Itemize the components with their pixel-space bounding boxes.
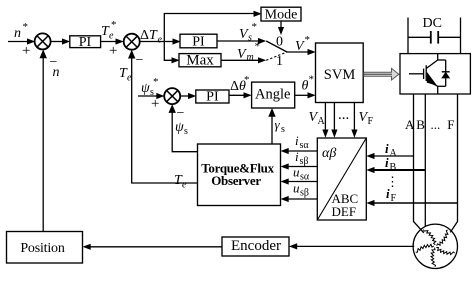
svg-text:Δ: Δ <box>140 28 149 43</box>
svg-text:B: B <box>416 117 425 132</box>
svg-text:sβ: sβ <box>300 188 309 199</box>
svg-text:*: * <box>153 76 159 88</box>
wire S2 to PI2 <box>140 38 181 44</box>
wire PI2 to contact 0 <box>217 38 266 44</box>
svg-text:γ: γ <box>275 117 281 132</box>
svg-text:+: + <box>109 43 117 59</box>
summing junction S2 <box>124 34 140 50</box>
svg-text:sα: sα <box>300 172 310 183</box>
wire i_sbeta <box>281 163 318 169</box>
wire motor to encoder <box>289 243 414 249</box>
wire PI3 to Angle <box>229 92 252 98</box>
diode freewheel <box>438 60 451 86</box>
svg-text:...: ... <box>431 117 441 132</box>
svg-text:...: ... <box>338 107 349 123</box>
wire SVM output VF <box>351 103 357 138</box>
block inverter box <box>400 54 470 94</box>
svg-text:*: * <box>252 21 258 33</box>
svg-text:*: * <box>111 19 117 31</box>
block Mode <box>261 7 301 22</box>
transistor IGBT <box>409 54 438 94</box>
wire Mode to switch <box>278 21 284 35</box>
summing junction S1 <box>35 33 51 49</box>
svg-text:Max: Max <box>186 53 214 69</box>
svg-text:A: A <box>318 116 326 127</box>
wire Angle to SVM <box>295 92 316 98</box>
svg-text:+: + <box>151 96 159 112</box>
wire i_B tap <box>366 167 425 173</box>
wire psi_s* input <box>138 93 165 99</box>
wire phase line B <box>424 94 426 227</box>
wire SVM output VA <box>322 103 328 138</box>
wire DC rail left <box>407 18 409 54</box>
svg-text:A: A <box>390 148 398 159</box>
wire S3 to PI3 <box>180 93 196 99</box>
svg-text:s: s <box>281 124 285 135</box>
wire V* to SVM <box>287 49 316 55</box>
wire Te feedback <box>128 50 198 183</box>
wire phase line F <box>450 94 457 232</box>
svg-text:Δ: Δ <box>230 79 239 94</box>
svg-text:Angle: Angle <box>255 87 290 103</box>
svg-text:F: F <box>391 193 397 204</box>
motor M1 <box>413 224 457 268</box>
svg-text:Observer: Observer <box>211 173 261 188</box>
wire psi_s feedback <box>169 104 198 152</box>
svg-text:sβ: sβ <box>300 156 309 167</box>
wire PI1 to S2 <box>101 38 124 44</box>
svg-text:−: − <box>136 53 144 68</box>
svg-text:PI: PI <box>192 34 205 49</box>
wire i_F tap <box>366 200 457 206</box>
wire gamma_s observer to Angle <box>268 108 275 144</box>
svg-text:e: e <box>158 35 163 46</box>
svg-text:A: A <box>405 117 415 132</box>
block SVM <box>316 43 364 103</box>
wire SVM output middle <box>331 103 337 138</box>
svg-text:V: V <box>237 47 247 62</box>
svg-text:n: n <box>53 65 60 80</box>
switch blade solid <box>266 41 287 52</box>
svg-text:+: + <box>22 43 30 59</box>
svg-text:V: V <box>295 39 305 54</box>
svg-text:s: s <box>184 126 188 137</box>
wire phase line A <box>414 94 424 233</box>
svg-text:F: F <box>368 116 374 127</box>
wire i_salpha <box>281 148 318 154</box>
summing junction S3 <box>164 88 180 104</box>
wire branch to Mode <box>164 11 261 42</box>
svg-text:DC: DC <box>423 16 442 31</box>
block PI1 <box>70 35 101 50</box>
wire n* input <box>8 38 35 44</box>
switch blade dashed <box>266 52 287 60</box>
svg-text:i: i <box>385 155 389 170</box>
svg-text:i: i <box>386 186 390 201</box>
svg-text:i: i <box>295 149 299 164</box>
capacitor DC link <box>408 31 461 44</box>
wire u_sbeta <box>281 196 318 202</box>
svg-text:ψ: ψ <box>175 120 184 135</box>
block transform alpha-beta <box>317 138 366 220</box>
svg-text:n: n <box>14 26 21 41</box>
svg-text:e: e <box>182 180 187 191</box>
svg-text:−: − <box>177 106 185 121</box>
svg-text:u: u <box>293 165 300 180</box>
svg-text:Encoder: Encoder <box>231 238 281 254</box>
wire u_salpha <box>281 178 318 184</box>
svg-text:*: * <box>244 74 250 86</box>
wire n feedback <box>40 49 47 231</box>
svg-text:*: * <box>255 41 261 53</box>
svg-text:ψ: ψ <box>141 81 150 96</box>
svg-text:F: F <box>447 117 454 132</box>
block Position <box>7 232 83 264</box>
wire gray arrow SVM to inverter <box>364 68 399 80</box>
svg-text:*: * <box>309 74 315 86</box>
svg-text:*: * <box>305 34 311 46</box>
block PI2 <box>180 34 217 49</box>
svg-text:PI: PI <box>79 35 92 50</box>
svg-text:SVM: SVM <box>324 67 356 83</box>
svg-text:u: u <box>293 181 300 196</box>
svg-text:*: * <box>23 21 29 33</box>
block PI3 <box>196 90 229 105</box>
svg-text:sα: sα <box>300 140 310 151</box>
svg-text:m: m <box>247 52 254 63</box>
wire i_A tap <box>366 153 413 159</box>
svg-text:s: s <box>248 32 252 43</box>
svg-text:θ: θ <box>302 79 309 94</box>
svg-text:1: 1 <box>276 54 283 69</box>
svg-text:i: i <box>385 141 389 156</box>
svg-text:e: e <box>109 31 114 42</box>
wire Max to contact 1 <box>221 57 266 63</box>
svg-text:DEF: DEF <box>332 204 357 219</box>
block observer <box>198 144 281 206</box>
svg-text:Position: Position <box>20 241 65 256</box>
wire S1 to PI1 <box>51 38 71 44</box>
wire encoder to position <box>83 244 223 250</box>
svg-text:i: i <box>295 133 299 148</box>
svg-text:B: B <box>390 162 397 173</box>
svg-text:e: e <box>127 73 132 84</box>
block Angle <box>252 82 295 108</box>
block Encoder <box>222 237 289 256</box>
svg-text:PI: PI <box>206 90 219 105</box>
wire branch to Max <box>164 42 179 64</box>
wire DC rail right <box>460 18 462 54</box>
svg-text:αβ: αβ <box>322 146 336 161</box>
svg-text:Mode: Mode <box>265 7 298 22</box>
block Max <box>179 53 221 69</box>
